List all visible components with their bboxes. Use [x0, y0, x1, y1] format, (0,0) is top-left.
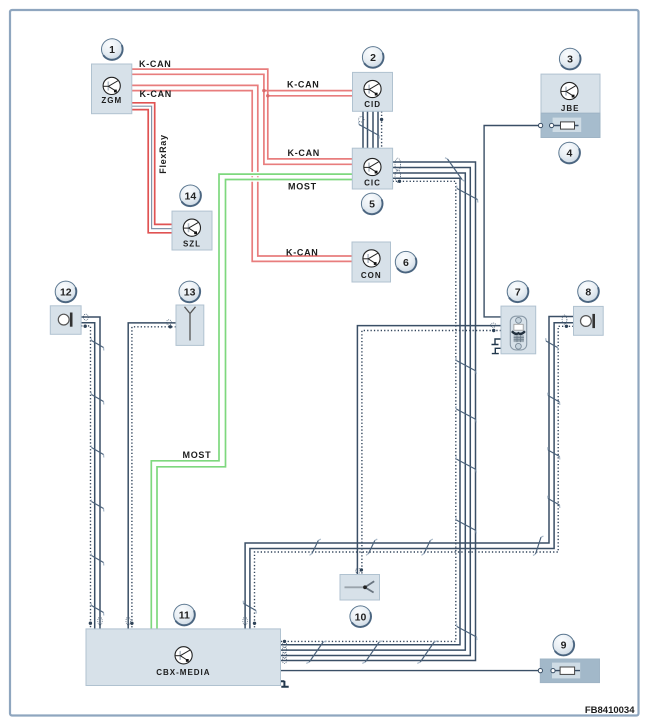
box CIC U5 [352, 148, 392, 189]
wire CBX-MEDIA to box9 [281, 670, 580, 672]
connector dot box10 dotted line [360, 568, 363, 571]
box 13 antenna [176, 305, 204, 345]
connector ellipse box10 top [356, 568, 360, 574]
slash mark on CIC right horizontal bundle [445, 158, 464, 182]
box ZGM U1 [92, 64, 132, 114]
svg-text:CON: CON [361, 271, 382, 280]
wire box7 to box10 solid [357, 326, 501, 575]
number circle 9 [553, 634, 574, 655]
svg-text:5: 5 [369, 199, 375, 211]
connector dot box12 dotted line [84, 325, 87, 328]
svg-text:CID: CID [364, 100, 381, 109]
connector ellipse CBX right line1 [282, 642, 286, 648]
connector ellipse CBX right line3 [282, 653, 286, 659]
svg-text:FlexRay: FlexRay [158, 134, 168, 173]
wire box13 to CBX-MEDIA dotted [132, 327, 176, 629]
wire CIC right bundle dotted [281, 181, 456, 641]
svg-text:JBE: JBE [561, 104, 580, 113]
wire K-CAN ZGM to CON line1 [132, 85, 352, 256]
svg-text:7: 7 [515, 286, 521, 298]
wire CIC right bundle solid 4 [281, 178, 460, 645]
connector ellipse box8 left [562, 315, 567, 324]
wire CID to CIC bundle solid 1 [362, 111, 364, 148]
wire CIC right bundle solid 1 [281, 162, 476, 661]
svg-text:CIC: CIC [364, 178, 381, 187]
wire CID to CIC bundle solid 4 [377, 111, 379, 148]
svg-text:K-CAN: K-CAN [286, 248, 319, 258]
open circle JBE wire inner [550, 123, 554, 127]
wire box12 to CBX-MEDIA dotted [81, 326, 90, 629]
open circle JBE wire inner overlay [550, 123, 554, 127]
svg-text:4: 4 [566, 148, 572, 160]
connector dot box13 dotted line [169, 325, 172, 328]
wire box8 to CBX-MEDIA dotted [255, 326, 574, 629]
slash mark on box12 bundle y606 [91, 604, 104, 616]
connector dot CBX right dotted [283, 640, 286, 643]
slash mark on CIC vertical bundle y409 [456, 406, 477, 423]
svg-text:12: 12 [60, 287, 72, 299]
svg-text:K-CAN: K-CAN [140, 89, 173, 99]
connector ellipse CID bottom [359, 117, 364, 122]
box CON U6 [352, 242, 391, 282]
slash mark on bottom bundle x365 [362, 641, 382, 664]
connector dot CIC right dotted line [398, 180, 401, 183]
number circle 12 [55, 281, 76, 302]
svg-text:11: 11 [179, 610, 190, 622]
slash mark on CIC vertical bundle y520 [456, 517, 477, 534]
slash mark on box12 bundle y502 [91, 500, 104, 512]
slash mark on box12 bundle y341 [91, 339, 104, 351]
wire box12 to CBX-MEDIA solid outer [81, 317, 100, 629]
wire K-CAN ZGM to CON line2 [132, 91, 352, 262]
svg-text:SZL: SZL [183, 240, 201, 249]
box 12 speaker [50, 306, 81, 335]
connector ellipse box7 left [491, 323, 496, 327]
wire K-CAN ZGM to CIC line1 [132, 69, 352, 159]
svg-text:ZGM: ZGM [101, 96, 122, 105]
open circle box9 wire at box edge overlay [538, 669, 542, 673]
junction dot K-CAN CID branch lower [266, 94, 269, 97]
wire CIC right bundle solid 3 [281, 173, 466, 650]
slash mark on box8 vertical bundle y395 [548, 393, 560, 405]
wire FlexRay ZGM to SZL outer red [132, 103, 172, 225]
box 9 fuse [540, 659, 599, 683]
wire K-CAN branch to CID line1 [264, 90, 353, 92]
slash mark on CIC vertical bundle y459 [456, 456, 477, 473]
slash mark on box12 bundle y556 [91, 554, 104, 566]
slash mark on group C verticals y603 [243, 601, 256, 614]
connector dot CID bottom dotted line [380, 118, 383, 121]
svg-text:2: 2 [370, 52, 376, 64]
svg-text:MOST: MOST [183, 450, 212, 460]
connector dot CBX top group B dotted [130, 622, 133, 625]
slash mark on CID-CIC bundle [359, 122, 380, 139]
svg-text:1: 1 [109, 44, 115, 56]
slash mark on bottom bundle x309 [306, 641, 326, 664]
slash mark on CIC vertical bundle y360 [456, 358, 477, 375]
svg-text:K-CAN: K-CAN [287, 80, 320, 90]
wire CID to CIC bundle dotted [381, 111, 383, 148]
connector ellipse CBX top group B [126, 617, 130, 625]
connector dot box7 dotted line [492, 329, 495, 332]
connector ellipse box13 left [167, 320, 172, 325]
number circle 6 [395, 251, 416, 272]
slash mark on CIC vertical bundle below corner [457, 186, 478, 203]
box 10 optical splitter [340, 575, 380, 601]
number circle 8 [578, 281, 599, 302]
number circle 3 [559, 48, 580, 69]
svg-text:13: 13 [184, 287, 196, 299]
number circle 14 [180, 185, 201, 206]
svg-text:10: 10 [355, 611, 367, 623]
slash mark on box8 vertical bundle y450 [548, 447, 560, 459]
number circle 7 [507, 281, 528, 302]
wire MOST CIC to CBX-MEDIA line2 [157, 180, 353, 630]
slash mark on horizontal pair x368 [366, 539, 377, 555]
box 7 phone [501, 306, 536, 354]
svg-text:K-CAN: K-CAN [288, 148, 321, 158]
ground symbol box7 lower [492, 348, 502, 353]
box 8 speaker [574, 306, 604, 335]
svg-text:14: 14 [185, 190, 197, 202]
slash mark on box12 bundle y448 [91, 446, 104, 458]
number circle 1 [102, 39, 123, 60]
open circle JBE wire at box edge overlay [539, 123, 543, 127]
open circle box9 wire at box edge [538, 669, 542, 673]
connector ellipse CBX top group C [243, 617, 247, 625]
wire K-CAN ZGM to CIC line2 [132, 74, 352, 164]
connector dot CBX top group A dotted [89, 622, 92, 625]
box SZL U14 [172, 211, 212, 250]
ground symbol box7 upper [492, 339, 502, 345]
wire box8 to CBX-MEDIA solid outer [245, 317, 573, 629]
svg-text:6: 6 [403, 257, 409, 269]
footnote 1 marker at CBX-MEDIA corner [280, 681, 288, 687]
open circle box9 wire inner [551, 669, 555, 673]
svg-text:FB8410034: FB8410034 [585, 705, 635, 716]
number circle 10 [350, 606, 371, 627]
wire FlexRay ZGM to SZL inner red [132, 110, 172, 233]
box CBX-MEDIA U11 [86, 629, 281, 686]
wire box7 to box10 dotted [362, 331, 501, 575]
svg-text:9: 9 [561, 640, 567, 652]
fuse icon box4 [552, 125, 579, 127]
slash mark on bottom bundle x420 [417, 641, 437, 664]
connector ellipse CIC right lower [395, 170, 401, 183]
wire K-CAN branch to CID line2 [268, 95, 353, 97]
connector dot CBX top group C dotted [253, 622, 256, 625]
slash mark on box8 vertical bundle y498 [548, 496, 560, 508]
wire MOST CIC to CBX-MEDIA line1 white casing [151, 174, 352, 628]
box JBE U3 [541, 74, 600, 137]
wire box13 to CBX-MEDIA solid [128, 323, 176, 629]
number circle 11 [174, 604, 195, 625]
wire JBE to box7 [484, 126, 578, 317]
svg-text:3: 3 [567, 54, 573, 66]
wire CID to CIC bundle solid 3 [372, 111, 374, 148]
connector ellipse CIC right upper [395, 158, 401, 171]
svg-text:K-CAN: K-CAN [139, 59, 172, 69]
wire CID to CIC bundle solid 2 [367, 111, 369, 148]
number circle 2 [362, 47, 383, 68]
junction dot K-CAN CID branch upper [262, 89, 265, 92]
wire MOST CIC to CBX-MEDIA line1 [151, 174, 352, 629]
svg-text:CBX-MEDIA: CBX-MEDIA [156, 668, 210, 677]
connector ellipse CBX right line2 [282, 647, 286, 653]
number circle 5 [361, 193, 382, 214]
number circle 13 [179, 281, 200, 302]
svg-text:8: 8 [585, 286, 591, 298]
svg-text:MOST: MOST [288, 182, 317, 192]
slash mark on horizontal pair x424 [422, 539, 433, 555]
connector dot box8 dotted line [565, 325, 568, 328]
slash mark on box8 vertical bundle y341 [546, 338, 558, 350]
slash mark on box12 bundle y395 [91, 393, 104, 405]
connector ellipse box12 right [83, 314, 88, 320]
box CID U2 [353, 72, 393, 111]
connector ellipse CBX right line4 [282, 658, 286, 664]
connector ellipse CBX top group A [98, 617, 102, 625]
slash mark on CIC vertical bundle y626 [456, 624, 477, 641]
slash mark on horizontal pair x312 [310, 539, 321, 555]
number circle 4 [559, 142, 580, 163]
open circle JBE wire at box edge [539, 123, 543, 127]
slash mark on horizontal pair x535 [533, 536, 544, 556]
open circle box9 wire inner overlay [551, 669, 555, 673]
wire CIC right bundle solid 2 [281, 168, 471, 656]
wire box12 to CBX-MEDIA solid inner [81, 323, 95, 629]
wire FlexRay middle conductor [132, 106, 172, 228]
wire box8 to CBX-MEDIA solid inner [250, 323, 574, 629]
wire MOST CIC to CBX-MEDIA line2 white casing [157, 180, 353, 629]
